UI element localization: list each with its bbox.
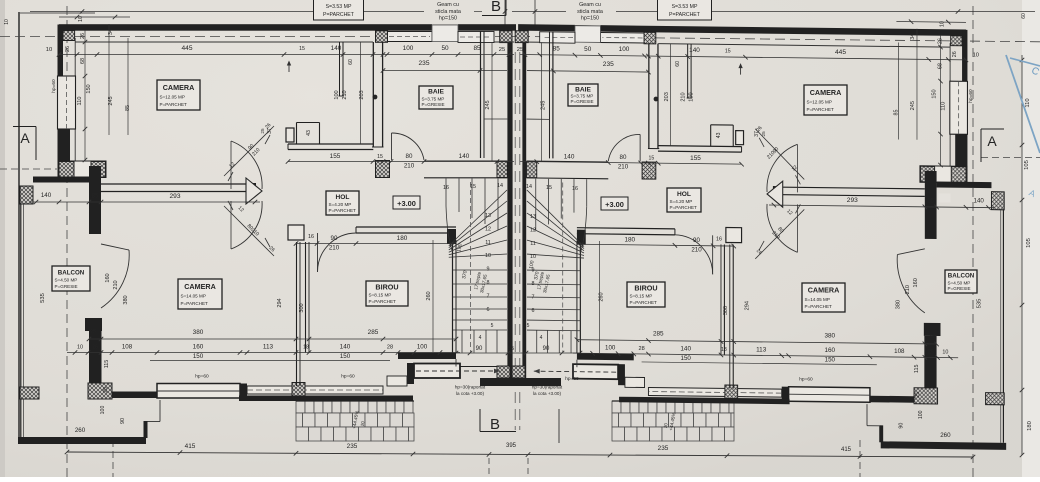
svg-text:115: 115 [914, 365, 920, 374]
svg-text:10: 10 [942, 350, 948, 356]
dim line y161 [288, 161, 514, 163]
svg-text:108: 108 [122, 344, 133, 351]
svg-text:140: 140 [564, 154, 575, 161]
svg-text:P=PARCHET: P=PARCHET [160, 102, 188, 107]
svg-text:BAIE: BAIE [575, 86, 591, 93]
dim line y360 [642, 362, 877, 365]
parapet hatched pier [725, 385, 738, 399]
svg-text:15: 15 [299, 46, 305, 52]
left unit geometry [18, 15, 516, 444]
svg-text:hp=30(raportat: hp=30(raportat [455, 385, 486, 390]
svg-text:180: 180 [397, 235, 408, 242]
svg-text:S=12.05 MP: S=12.05 MP [807, 100, 832, 105]
SW corner hatched block [914, 388, 938, 404]
svg-text:S=4.50 MP: S=4.50 MP [55, 278, 78, 283]
balcony pier SW [986, 393, 1005, 405]
wall birou/stair [452, 240, 454, 353]
svg-text:85: 85 [473, 45, 481, 52]
room label BAIE [568, 84, 598, 106]
top overall dim line [30, 11, 424, 13]
svg-text:180: 180 [624, 236, 635, 243]
party wall hatched piers top [500, 31, 512, 43]
closet partition [339, 42, 341, 96]
svg-text:P=PARCHET: P=PARCHET [181, 301, 209, 306]
svg-text:S=3.75 MP: S=3.75 MP [571, 94, 594, 99]
south pier [240, 384, 247, 400]
birou NE corner block [577, 230, 586, 245]
dim line top row1 [59, 54, 514, 56]
svg-text:10: 10 [939, 21, 945, 27]
birou west wall [723, 244, 725, 355]
svg-text:100: 100 [605, 345, 616, 352]
section mark B bottom [479, 409, 481, 432]
svg-text:108: 108 [894, 348, 905, 355]
frame top-left [19, 12, 95, 14]
stair flight left [445, 179, 447, 207]
svg-text:160: 160 [824, 347, 835, 354]
section mark B top [505, 0, 507, 16]
svg-text:28: 28 [638, 346, 644, 352]
svg-text:380: 380 [123, 295, 129, 304]
svg-text:S=3.53 MP: S=3.53 MP [326, 4, 352, 10]
svg-text:43: 43 [716, 132, 722, 138]
svg-text:110: 110 [940, 102, 946, 111]
svg-text:hp=60: hp=60 [565, 376, 579, 382]
room label HOL [326, 191, 359, 215]
svg-text:14: 14 [497, 183, 503, 189]
svg-text:sticla mata: sticla mata [577, 9, 603, 15]
svg-text:113: 113 [756, 346, 767, 353]
svg-text:113: 113 [263, 344, 274, 351]
svg-text:210: 210 [905, 285, 911, 294]
svg-text:85: 85 [125, 105, 131, 111]
svg-text:25: 25 [928, 349, 934, 355]
room label CAMERA [804, 85, 847, 115]
svg-text:P=GRESIE: P=GRESIE [422, 102, 445, 107]
door2 (camera2) leaf + swing [755, 209, 804, 260]
dim line y339 [89, 338, 456, 340]
balcony SE corner post [144, 421, 148, 438]
svg-text:14: 14 [526, 184, 532, 190]
svg-text:P=PARCHET: P=PARCHET [805, 304, 833, 309]
svg-text:B: B [490, 416, 500, 433]
svg-text:285: 285 [368, 329, 379, 336]
svg-text:210: 210 [342, 90, 348, 99]
svg-text:80: 80 [620, 154, 627, 161]
svg-text:160: 160 [193, 344, 204, 351]
svg-text:A: A [20, 130, 30, 146]
svg-text:CAMERA: CAMERA [184, 282, 216, 291]
svg-text:140: 140 [974, 198, 985, 205]
svg-text:203: 203 [664, 92, 670, 101]
landing band / baie south wall [424, 160, 507, 162]
wall birou/stair [579, 241, 581, 354]
partition camera/baie [372, 42, 374, 147]
brick retaining wall hatch [296, 401, 305, 413]
svg-text:140: 140 [331, 45, 342, 52]
svg-text:sticla mata: sticla mata [435, 9, 461, 15]
pier at baie door [642, 162, 656, 179]
svg-text:150: 150 [932, 89, 938, 98]
svg-text:hp=60: hp=60 [341, 374, 355, 380]
birou door leaf and swing [712, 235, 714, 274]
parapet hp=60 [648, 388, 781, 398]
dim line y161 [520, 162, 741, 165]
svg-text:BAIE: BAIE [428, 89, 444, 96]
terrace edge band [619, 397, 790, 405]
svg-text:10: 10 [485, 253, 491, 259]
balcony pier NW [20, 186, 33, 204]
svg-text:26: 26 [80, 33, 86, 39]
svg-text:hp=60: hp=60 [51, 79, 57, 93]
svg-text:15: 15 [546, 185, 552, 191]
svg-text:50: 50 [584, 46, 592, 53]
svg-text:10: 10 [973, 53, 979, 59]
window west wall [58, 76, 76, 129]
svg-text:P=GRESIE: P=GRESIE [55, 284, 78, 289]
svg-text:150: 150 [86, 84, 92, 93]
svg-text:100: 100 [403, 45, 414, 52]
dim line y360 [150, 360, 390, 362]
window sill near pier 85 [458, 32, 494, 43]
svg-text:380: 380 [193, 329, 204, 336]
porch pilaster [618, 364, 625, 385]
pier at baie door [376, 161, 390, 178]
blue stamp (partial) top-right [1006, 55, 1040, 153]
south low wall [112, 392, 157, 399]
facade step [382, 386, 384, 394]
top wall inner face [658, 44, 950, 47]
balcony west wall outer [1002, 210, 1004, 443]
svg-text:+3.00: +3.00 [397, 199, 416, 208]
dim line y352 [573, 353, 958, 358]
door cluster jamb upper [736, 131, 744, 145]
niche wall [296, 123, 298, 145]
porch pilaster [407, 363, 414, 384]
room label CAMERA [157, 80, 200, 110]
svg-text:380: 380 [824, 333, 835, 340]
svg-text:6: 6 [532, 308, 535, 314]
room label BIROU [627, 282, 665, 307]
axis dashed vertical x973 [972, 6, 974, 477]
room label BIROU [366, 281, 408, 306]
svg-text:445: 445 [835, 49, 846, 56]
svg-text:90: 90 [120, 418, 126, 424]
partition camera/baie [657, 44, 659, 149]
svg-text:15: 15 [725, 49, 731, 55]
svg-text:60: 60 [675, 61, 681, 67]
top wall inner face [76, 41, 374, 43]
dim line y202 [769, 205, 994, 208]
svg-text:105: 105 [1026, 238, 1032, 248]
west wall lower bar [58, 129, 71, 177]
svg-text:Geam cu: Geam cu [437, 2, 459, 8]
svg-text:15: 15 [578, 239, 584, 245]
door1 (camera) leaf + swing [224, 126, 274, 176]
svg-text:235: 235 [347, 443, 358, 450]
svg-text:210: 210 [113, 280, 119, 289]
house west wall notch [924, 323, 941, 336]
bottom dimension line [67, 452, 973, 457]
svg-text:415: 415 [841, 447, 852, 453]
camera south wall [658, 146, 742, 147]
svg-text:11: 11 [530, 241, 536, 247]
birou south wall [577, 353, 634, 360]
brick retaining wall hatch [612, 401, 621, 413]
axis dashed vertical x67 [66, 6, 68, 477]
hatched piers at stair bottom [497, 366, 510, 378]
svg-text:7: 7 [532, 294, 535, 300]
svg-text:25: 25 [260, 128, 265, 134]
party wall center [507, 43, 512, 378]
svg-text:5: 5 [491, 323, 494, 329]
svg-text:210: 210 [681, 92, 687, 101]
svg-text:100: 100 [689, 92, 695, 101]
porch band [387, 376, 407, 386]
svg-text:10: 10 [46, 47, 52, 53]
svg-text:P=GRESIE: P=GRESIE [948, 286, 971, 291]
svg-text:160: 160 [105, 273, 111, 282]
birou north wall [577, 228, 675, 229]
svg-text:hp=60: hp=60 [195, 374, 209, 380]
door1 (camera) leaf + swing [755, 129, 804, 180]
svg-text:13: 13 [485, 213, 491, 219]
axis dashed stub x528 [527, 458, 529, 477]
svg-text:28: 28 [387, 345, 393, 351]
svg-text:294: 294 [277, 298, 283, 307]
svg-text:25: 25 [761, 131, 766, 137]
balcony SE corner post [879, 425, 883, 442]
svg-text:293: 293 [847, 197, 858, 204]
svg-text:P=PARCHET: P=PARCHET [630, 300, 658, 305]
room label HOL [667, 188, 701, 212]
svg-text:80: 80 [406, 153, 413, 160]
svg-text:55: 55 [508, 346, 514, 352]
svg-text:260: 260 [426, 291, 432, 300]
dim line above top wall [896, 21, 966, 24]
svg-text:P=GRESIE: P=GRESIE [571, 99, 594, 104]
axis dashed stub left y169 [0, 168, 57, 170]
svg-text:9: 9 [487, 267, 490, 273]
south pier [782, 387, 789, 403]
hatched pier landing [497, 162, 507, 178]
svg-text:60: 60 [1021, 13, 1027, 19]
balcony north wall [937, 181, 992, 188]
svg-text:95: 95 [930, 334, 936, 340]
svg-text:16: 16 [308, 234, 314, 240]
balcony pier NW [991, 192, 1004, 210]
svg-text:HOL: HOL [677, 191, 691, 198]
svg-text:CAMERA: CAMERA [163, 83, 195, 92]
svg-text:P=PARCHET: P=PARCHET [670, 205, 698, 210]
porch band [625, 377, 645, 387]
closet partition [690, 44, 692, 98]
svg-text:210: 210 [618, 164, 629, 171]
camera2 east wall [296, 242, 298, 386]
stair walking line [470, 182, 472, 352]
lamp dot left [373, 95, 378, 100]
svg-text:CAMERA: CAMERA [810, 88, 842, 97]
svg-text:90: 90 [693, 237, 700, 244]
west wall inner face [949, 43, 951, 166]
baie east wall [480, 31, 482, 158]
axis dashed horizontal left [0, 36, 520, 38]
partition pier under window [644, 32, 656, 44]
svg-text:10: 10 [77, 345, 83, 351]
landing band / baie south wall [527, 160, 609, 163]
svg-text:8: 8 [487, 280, 490, 286]
SW wall band [920, 166, 967, 183]
svg-text:68: 68 [938, 63, 944, 69]
svg-text:60: 60 [348, 59, 354, 65]
svg-text:BALCON: BALCON [58, 269, 85, 276]
svg-text:535: 535 [977, 299, 983, 309]
parapet hp=60 [247, 386, 383, 394]
balcony pier SW [20, 387, 39, 399]
svg-text:100: 100 [619, 46, 630, 53]
svg-text:7: 7 [487, 293, 490, 299]
svg-text:210: 210 [404, 163, 415, 170]
svg-text:34: 34 [108, 29, 114, 35]
svg-text:140: 140 [680, 346, 691, 353]
svg-text:260: 260 [940, 432, 951, 439]
svg-text:6: 6 [487, 307, 490, 313]
corner hatched pier [951, 36, 962, 46]
svg-text:300: 300 [299, 303, 305, 312]
svg-text:115: 115 [104, 360, 110, 369]
camera2 north wall [101, 183, 255, 185]
axis dashed stub right y157 [981, 157, 1040, 159]
svg-text:P=PARCHET: P=PARCHET [807, 107, 835, 112]
svg-text:300: 300 [723, 306, 729, 315]
svg-text:S=14.05 MP: S=14.05 MP [805, 297, 830, 302]
door cluster jamb lower [726, 227, 742, 242]
svg-text:100: 100 [417, 344, 428, 351]
svg-text:10: 10 [4, 19, 10, 25]
svg-text:B: B [491, 0, 501, 15]
dim line y352 [67, 352, 460, 354]
room label BAIE [419, 86, 453, 109]
dim line y202 [30, 201, 260, 203]
exterior wall top band [600, 25, 966, 36]
window S1 (160/150) [789, 387, 870, 402]
svg-text:12: 12 [530, 227, 536, 233]
axis dashed horizontal right [520, 37, 1040, 42]
svg-text:26: 26 [938, 38, 944, 44]
svg-text:P=PARCHET: P=PARCHET [323, 12, 355, 18]
baie east wall [552, 31, 554, 158]
svg-text:100: 100 [918, 410, 924, 419]
svg-text:150: 150 [340, 353, 351, 360]
svg-text:260: 260 [598, 292, 604, 301]
svg-text:43: 43 [306, 130, 312, 136]
exterior wall top band near stair [458, 24, 516, 31]
svg-text:4: 4 [479, 335, 482, 341]
svg-text:90: 90 [476, 346, 483, 352]
birou NE corner block [447, 229, 456, 244]
small arrow symbol in camera [740, 65, 742, 75]
svg-text:235: 235 [658, 445, 669, 452]
pier between doors [767, 181, 783, 207]
corner hatched pier [63, 31, 75, 41]
svg-text:Geam cu: Geam cu [579, 2, 601, 8]
svg-text:235: 235 [603, 61, 614, 68]
niche wall [732, 125, 734, 147]
room label BALCON [52, 266, 90, 291]
house west wall upper [89, 166, 101, 234]
svg-text:10: 10 [78, 16, 84, 22]
svg-text:210: 210 [329, 245, 340, 252]
svg-text:16: 16 [443, 185, 449, 191]
svg-text:100: 100 [100, 406, 106, 415]
svg-text:380: 380 [895, 300, 901, 309]
camera south wall [288, 143, 373, 145]
svg-text:S=4.20 MP: S=4.20 MP [670, 199, 693, 204]
window S1 (160/150) [157, 384, 240, 399]
svg-text:25: 25 [915, 392, 921, 398]
stair walking line [562, 183, 564, 353]
west wall inner face [74, 38, 76, 161]
svg-text:140: 140 [689, 47, 700, 54]
SW wall band [58, 161, 106, 178]
dim line y339 [577, 340, 937, 344]
dim line top row2 [527, 71, 649, 72]
svg-text:10: 10 [530, 254, 536, 260]
svg-text:S=3.75 MP: S=3.75 MP [422, 96, 445, 101]
svg-text:S=14.05 MP: S=14.05 MP [181, 294, 206, 299]
terrace edge band [239, 396, 413, 402]
svg-text:90: 90 [543, 346, 550, 352]
birou west wall [305, 242, 307, 353]
svg-text:S=4.50 MP: S=4.50 MP [948, 280, 971, 285]
svg-text:155: 155 [330, 153, 341, 160]
window top (100) [600, 32, 644, 43]
pier between doors [246, 178, 262, 204]
svg-text:+3.00: +3.00 [605, 200, 624, 209]
svg-text:BALCON: BALCON [948, 273, 975, 280]
svg-text:12: 12 [485, 226, 491, 232]
partition pier under window [376, 31, 388, 43]
svg-text:la cota +3.00): la cota +3.00) [533, 391, 561, 396]
balcony west wall inner [23, 204, 25, 437]
balcony door leaf and swing [101, 244, 129, 250]
svg-text:155: 155 [690, 155, 701, 162]
door cluster jamb lower [288, 225, 304, 240]
west wall upper bar [58, 25, 64, 77]
svg-text:BIROU: BIROU [634, 283, 657, 292]
svg-text:25: 25 [103, 387, 109, 393]
svg-text:P=PARCHET: P=PARCHET [369, 299, 397, 304]
SW corner hatched block [88, 383, 112, 399]
door cluster jamb upper [286, 128, 294, 142]
section mark A right [981, 128, 1004, 130]
svg-text:A: A [987, 133, 997, 149]
svg-text:294: 294 [744, 301, 750, 310]
svg-text:hp=150: hp=150 [439, 16, 457, 22]
svg-text:245: 245 [910, 101, 916, 110]
svg-text:5: 5 [527, 323, 530, 329]
stair flight left [586, 179, 588, 207]
house west wall notch [85, 318, 102, 331]
svg-text:90: 90 [898, 423, 904, 429]
svg-text:15: 15 [449, 238, 455, 244]
entrance threshold band bottom center [480, 378, 561, 386]
dim line above top wall [59, 16, 130, 18]
axis dashed stub x860 [859, 440, 861, 477]
svg-text:S=8.15 MP: S=8.15 MP [630, 294, 653, 299]
dim line top row2 [383, 70, 507, 72]
svg-text:85: 85 [553, 45, 561, 52]
